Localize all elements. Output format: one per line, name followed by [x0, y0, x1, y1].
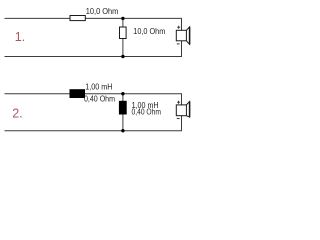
resistor R1 (series 10,0 Ohm) — [70, 16, 85, 21]
wire: bottom rail circuit 2 — [5, 130, 183, 132]
node C (top junction circuit 2) — [121, 92, 124, 95]
wire: top rail circuit 2 — [5, 93, 183, 95]
wire: shunt branch circuit 2 — [122, 94, 124, 131]
wire: speaker to bottom rail circuit 1 — [181, 41, 183, 57]
wire: top rail circuit 1 — [5, 17, 183, 19]
pin label + (speaker 2) — [177, 101, 180, 104]
wire: right vertical to speaker circuit 1 — [181, 18, 183, 30]
svg-text:2.: 2. — [12, 107, 22, 121]
wire: right vertical to speaker circuit 2 — [181, 94, 183, 105]
svg-text:1,00 mH: 1,00 mH — [85, 82, 112, 91]
wire: shunt branch circuit 1 — [122, 18, 124, 56]
svg-text:1.: 1. — [15, 30, 25, 44]
circuit 2 — [5, 94, 183, 131]
svg-text:10,0 Ohm: 10,0 Ohm — [133, 27, 165, 36]
speaker LS2 — [176, 102, 189, 118]
wire: speaker to bottom rail circuit 2 — [181, 116, 183, 131]
pin label + (speaker 1) — [177, 26, 180, 29]
node D (bottom junction circuit 2) — [121, 129, 124, 132]
pin label - (speaker 2) — [177, 118, 180, 120]
wire: bottom rail circuit 1 — [5, 56, 183, 58]
pin label - (speaker 1) — [177, 43, 180, 45]
node B (bottom junction circuit 1) — [121, 55, 124, 58]
circuit 1 — [5, 18, 183, 56]
speaker LS1 — [176, 27, 189, 44]
node A (top junction circuit 1) — [121, 17, 124, 20]
svg-text:10,0 Ohm: 10,0 Ohm — [86, 7, 119, 16]
svg-text:0,40 Ohm: 0,40 Ohm — [132, 108, 162, 117]
svg-text:0,40 Ohm: 0,40 Ohm — [84, 95, 115, 104]
resistor R2 (shunt 10,0 Ohm) — [120, 27, 127, 39]
inductor L2 (shunt 1,00 mH / 0,40 Ohm) — [119, 101, 126, 114]
inductor L1 (series 1,00 mH / 0,40 Ohm) — [70, 90, 85, 98]
